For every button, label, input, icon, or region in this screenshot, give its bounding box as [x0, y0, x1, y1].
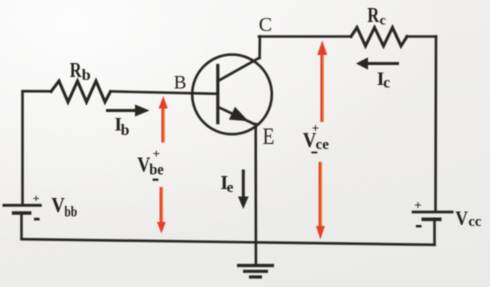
battery Vbb minus sign: [34, 218, 40, 221]
svg-text:cc: cc: [468, 214, 481, 230]
transistor Q1 emitter arrowhead: [231, 109, 246, 120]
voltage arrow Vbe down segment: [157, 187, 166, 234]
svg-text:R: R: [70, 58, 82, 82]
resistor Rb: [51, 81, 111, 102]
ground: [237, 266, 274, 278]
svg-text:V: V: [51, 193, 64, 217]
wire Rb to base: [111, 91, 217, 93]
wire bottom horizontal: [23, 239, 435, 245]
svg-text:R: R: [367, 3, 379, 27]
svg-text:bb: bb: [64, 205, 77, 221]
transistor Q1 base bar: [216, 66, 219, 123]
svg-text:C: C: [259, 14, 272, 36]
transistor Q1 collector stroke: [218, 58, 259, 81]
label Vce minus: [311, 152, 317, 154]
transistor Q1 emitter stroke: [218, 107, 255, 125]
wire Vcc to bottom: [433, 220, 436, 245]
svg-text:b: b: [82, 67, 91, 84]
wire collector vertical: [258, 37, 261, 59]
svg-text:c: c: [383, 75, 390, 92]
label Vbe minus: [153, 179, 159, 181]
current arrow Ib: [106, 105, 150, 117]
transistor Q1 circle: [192, 55, 272, 135]
svg-text:E: E: [263, 124, 275, 149]
svg-text:ce: ce: [316, 137, 330, 153]
svg-text:+: +: [414, 197, 421, 212]
battery Vbb: [3, 205, 42, 213]
svg-text:e: e: [227, 180, 234, 196]
svg-text:+: +: [312, 121, 319, 136]
battery Vcc: [412, 212, 454, 219]
svg-text:be: be: [149, 162, 164, 179]
wire top horizontal to Rc: [259, 35, 351, 38]
current arrow Ic: [356, 57, 399, 69]
battery Vcc minus sign: [416, 225, 422, 227]
current arrow Ie: [238, 170, 249, 210]
svg-text:V: V: [455, 207, 468, 229]
wire Vbb to bottom: [20, 214, 23, 240]
svg-text:+: +: [33, 191, 40, 205]
wire emitter vertical to ground: [254, 124, 257, 265]
svg-text:+: +: [153, 146, 160, 161]
resistor Rc: [351, 28, 407, 47]
wire left horizontal to Rb: [23, 90, 52, 93]
voltage arrow Vce up segment: [317, 41, 327, 123]
svg-text:b: b: [121, 122, 130, 139]
svg-text:c: c: [380, 14, 386, 29]
svg-text:B: B: [174, 72, 187, 93]
wire left vertical (Vbb to Rb): [21, 92, 24, 204]
wire right vertical: [434, 37, 437, 212]
wire Rc to right corner: [407, 35, 436, 38]
voltage arrow Vbe up segment: [159, 96, 168, 143]
voltage arrow Vce down segment: [316, 162, 325, 240]
